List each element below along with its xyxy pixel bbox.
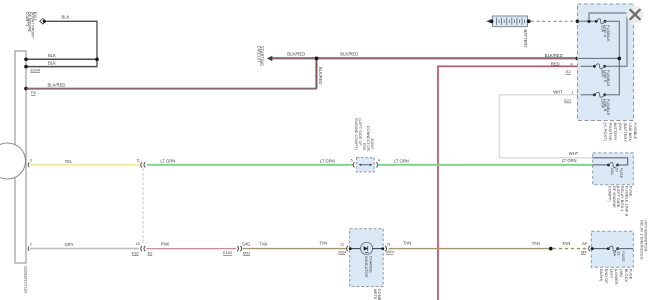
svg-text:RED: RED [551, 61, 560, 66]
connector arcs E152/M51 [237, 246, 242, 251]
svg-text:LT GRN: LT GRN [562, 158, 577, 163]
wire WHT lower [499, 157, 593, 159]
svg-text:DASH): DASH) [599, 269, 604, 282]
svg-text:TAN: TAN [562, 241, 570, 246]
wire vertical BLK [96, 21, 98, 67]
label BLK [48, 61, 56, 66]
label F32 [132, 251, 140, 256]
wire LT GRN inside fuse box [593, 164, 609, 166]
wire link E to top bus [605, 65, 628, 67]
wire GRY [30, 248, 139, 250]
label FUSE BLOCK (J/B) (LOWER LEFT END OF DASH) [599, 269, 634, 285]
joint connector box [357, 158, 375, 172]
label LT GRN [394, 158, 409, 163]
label 54G [242, 242, 250, 247]
svg-text:M24: M24 [338, 250, 347, 255]
wire inside fuse block left [592, 248, 609, 250]
terminal dot generator lower [24, 65, 28, 69]
svg-text:(+) POST): (+) POST) [603, 123, 608, 142]
wire WHT vertical [499, 94, 501, 158]
pin 3 generator [30, 159, 32, 163]
svg-text:LT GRN: LT GRN [160, 158, 175, 163]
svg-text:BLK/RED: BLK/RED [318, 67, 323, 85]
svg-text:1: 1 [571, 91, 573, 95]
label E27 [564, 98, 572, 103]
connector arcs C16 [141, 246, 146, 251]
pin 11 charge indicator [340, 242, 344, 246]
label RED [551, 61, 560, 66]
fusible link B [593, 92, 606, 97]
border dot right [381, 247, 384, 250]
svg-text:BLK: BLK [62, 15, 70, 20]
junction dot link riser [618, 57, 622, 61]
connector arc M4 [589, 246, 590, 251]
wire BLK from E203 ground [47, 20, 98, 22]
label FUSIBLE LINK B 100A [600, 99, 611, 116]
svg-text:RELAY 2 ENERGIZED: RELAY 2 ENERGIZED [639, 220, 644, 260]
wire link B to riser [605, 94, 620, 96]
svg-text:YEL: YEL [65, 159, 74, 164]
svg-text:BATTERY: BATTERY [523, 30, 528, 49]
label FUSIBLE LINK A 20A [600, 25, 611, 42]
svg-text:54G: 54G [242, 242, 250, 247]
wire riser to top bus [589, 13, 627, 66]
label JOINT CONNECTOR-E95 (LEFT SIDE OF ENGINE COMPT) [354, 118, 375, 152]
label YEL [65, 159, 74, 164]
svg-text:M24: M24 [386, 249, 395, 254]
fuse 31 [607, 246, 619, 251]
label STARTING CIRCUIT [256, 46, 264, 66]
wire fuse 57 to WHT [618, 164, 629, 166]
svg-text:E2: E2 [566, 69, 572, 74]
svg-text:21: 21 [387, 243, 391, 247]
pin 2 generator [30, 242, 32, 246]
label BLK (top) [62, 15, 70, 20]
fuse 57 [607, 163, 619, 168]
connector arc left [353, 162, 354, 167]
label M24 right [386, 249, 395, 254]
connector arc E2 [578, 64, 579, 69]
svg-text:BLK/RED: BLK/RED [287, 52, 305, 57]
wire RED horizontal [437, 65, 577, 67]
label HOT W/IGNITION RELAY 2 ENERGIZED [639, 220, 648, 260]
pin 16 [136, 242, 140, 246]
svg-text:WHT: WHT [553, 90, 563, 95]
label CHARGE INDICATOR [364, 256, 374, 278]
close button X [626, 6, 643, 23]
svg-text:F6: F6 [31, 90, 36, 95]
pin 4 [571, 62, 573, 66]
svg-text:100A: 100A [600, 99, 605, 109]
label FUSIBLE LINK BOX (ON BATTERY POSITIVE (+) POST) [603, 123, 638, 143]
label BLK/RED [340, 51, 358, 56]
label BATTERY [523, 30, 528, 49]
label BLK/RED (near fuse box) [545, 53, 563, 58]
battery terminal dot right [527, 19, 531, 23]
svg-text:LT GRN: LT GRN [320, 158, 335, 163]
svg-text:INDICATOR: INDICATOR [364, 256, 369, 278]
svg-text:TAN: TAN [319, 241, 327, 246]
pin 4 [378, 159, 380, 163]
wire BLK/RED inside box [577, 57, 619, 59]
svg-text:BLK/RED: BLK/RED [545, 53, 563, 58]
fusible link box [578, 4, 634, 121]
label M51 [243, 250, 252, 255]
wire BLK/RED vertical riser [316, 58, 317, 88]
label GRY [65, 242, 74, 247]
svg-text:BP: BP [582, 242, 588, 246]
label BLK/RED [287, 52, 305, 57]
wire PNK [147, 248, 237, 250]
junction dot riser [587, 20, 590, 23]
connector arc M24 right [385, 246, 386, 251]
svg-text:5A: 5A [612, 251, 617, 256]
label E203 (RIGHT FRONT OF ENGINE COMPT) [25, 12, 37, 39]
label LT GRN (near fuse box) [562, 158, 577, 163]
connector arc E27 [578, 92, 579, 97]
charge indicator box [350, 229, 384, 287]
label E2 [148, 251, 154, 256]
fuse block box [591, 231, 633, 267]
wire battery feed inside box [577, 20, 596, 22]
label BLK [48, 53, 56, 58]
connector dashed link [142, 168, 144, 245]
label TAN [259, 242, 267, 247]
label PNK [161, 242, 170, 247]
connector arc generator pin 3 [28, 163, 29, 167]
wire link A to riser [605, 21, 619, 95]
battery terminal dot left [490, 19, 494, 23]
label BLK/RED [48, 83, 66, 88]
svg-text:GENERATOR: GENERATOR [23, 266, 28, 293]
svg-text:ENGINE COMPT): ENGINE COMPT) [354, 118, 359, 150]
svg-text:TAN: TAN [259, 242, 267, 247]
label LT GRN [320, 158, 335, 163]
wire WHT top [500, 94, 578, 96]
border dot [591, 247, 594, 250]
svg-text:BLK: BLK [48, 53, 56, 58]
svg-text:GRY: GRY [65, 242, 74, 247]
label COMB METER [373, 289, 382, 300]
connector arcs C11 [141, 162, 146, 167]
generator circle (rotor) [0, 143, 26, 179]
svg-text:COMPT): COMPT) [608, 186, 613, 202]
svg-text:16: 16 [136, 242, 140, 246]
wire BLK/RED from generator F6 [26, 88, 317, 89]
generator body box [15, 51, 26, 263]
wire WHT inside fuse box [593, 158, 628, 165]
svg-text:E152: E152 [223, 250, 233, 255]
connector arc M24 left [347, 246, 348, 251]
wire inside charge box left [350, 248, 361, 250]
wire BLK generator B+ upper [26, 58, 97, 60]
label E204 [31, 68, 41, 73]
label FUSE, FUSIBLE LINK & RELAY BOX 1 (LEFT SIDE OF ENGINE COMPT) [608, 186, 634, 217]
pin 21 [387, 243, 391, 247]
junction dot [95, 58, 99, 62]
wire TAN segment 2 [389, 248, 551, 250]
svg-text:BLK/RED: BLK/RED [340, 51, 358, 56]
svg-text:BLK: BLK [48, 61, 56, 66]
pin 11 [136, 159, 140, 163]
wire TAN segment 1 [243, 248, 346, 250]
terminal dot generator F6 [24, 87, 28, 91]
fusible link E [593, 64, 606, 69]
connector arc right [376, 162, 377, 167]
svg-text:F32: F32 [132, 251, 140, 256]
label LT GRN [160, 158, 175, 163]
label M4 [581, 250, 587, 255]
svg-text:METER: METER [373, 289, 378, 300]
fuse box (fuse 57) [593, 153, 634, 185]
svg-text:E2: E2 [148, 251, 154, 256]
svg-text:11: 11 [340, 242, 344, 246]
svg-text:TAN: TAN [403, 241, 411, 246]
charge indicator lamp [361, 242, 373, 254]
svg-text:15A: 15A [610, 168, 615, 175]
joint connector bus [359, 164, 373, 166]
label TAN [403, 241, 411, 246]
label WHT (lower) [569, 151, 579, 156]
svg-text:COMPT): COMPT) [25, 12, 29, 27]
svg-text:4: 4 [571, 62, 573, 66]
junction dot battery feed [576, 20, 580, 24]
wire BLK/RED to starting circuit [271, 58, 578, 59]
label WHT [553, 90, 563, 95]
svg-text:E204: E204 [31, 68, 41, 73]
wire RED vertical to bottom [437, 66, 439, 300]
svg-text:2: 2 [30, 242, 32, 246]
svg-text:M51: M51 [243, 250, 252, 255]
svg-text:5: 5 [351, 158, 353, 162]
svg-text:TAN: TAN [532, 241, 540, 246]
wire BLK generator B+ lower [26, 66, 97, 68]
label TAN [319, 241, 327, 246]
pin BP [582, 242, 588, 246]
label BLK/RED (vertical) [318, 67, 323, 85]
connector arc generator pin 2 [28, 246, 29, 250]
terminal dot generator upper [24, 58, 28, 62]
label FUSE 57 15A [610, 168, 624, 179]
fusible link A [595, 19, 607, 24]
svg-text:CIRCUIT: CIRCUIT [256, 46, 261, 63]
ground E203 symbol (diamond with dot) [40, 19, 46, 25]
label TAN [532, 241, 540, 246]
svg-text:LT GRN: LT GRN [394, 158, 409, 163]
junction dot BLK/RED [315, 57, 319, 61]
label GENERATOR [23, 266, 28, 293]
svg-text:20A: 20A [600, 25, 605, 32]
svg-text:4: 4 [378, 159, 380, 163]
border dot left [349, 247, 352, 250]
svg-text:PNK: PNK [161, 242, 170, 247]
pin 5 [351, 158, 353, 162]
wire dashed battery to fusible link box [531, 20, 577, 22]
wire RED feed inside box [581, 65, 595, 67]
wire inside charge box right [372, 248, 383, 250]
svg-text:11: 11 [136, 159, 140, 163]
svg-text:BLK/RED: BLK/RED [48, 83, 66, 88]
svg-text:3: 3 [30, 159, 32, 163]
svg-text:WHT: WHT [569, 151, 579, 156]
junction dot at fuse box border [576, 57, 580, 61]
label F6 [31, 90, 36, 95]
label E2 [566, 69, 572, 74]
wire LT GRN right segment [378, 164, 593, 166]
battery left arrow [486, 20, 490, 24]
label E152 [223, 250, 233, 255]
svg-text:80A: 80A [600, 70, 605, 77]
pin 1 [571, 91, 573, 95]
wire WHT feed inside box [581, 94, 595, 96]
arrow to STARTING CIRCUIT [267, 56, 273, 61]
wire LT GRN [147, 164, 353, 166]
label FUSE 31 5A [612, 251, 625, 262]
wire inside fuse block right [618, 248, 633, 250]
battery [493, 16, 528, 27]
svg-text:E27: E27 [564, 98, 572, 103]
svg-text:M4: M4 [581, 250, 587, 255]
label M24 left [338, 250, 347, 255]
label FUSIBLE LINK E 80A [600, 70, 611, 87]
wire YEL [30, 164, 139, 166]
junction dot TAN [549, 247, 553, 251]
wire TAN dashed [553, 248, 588, 250]
label TAN (dashed) [562, 241, 570, 246]
